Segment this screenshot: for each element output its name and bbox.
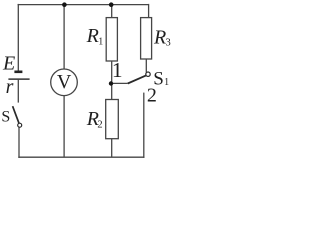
switch S1 pivot contact circle xyxy=(146,72,150,76)
wire: R1 top lead xyxy=(111,5,113,18)
resistor R2 box xyxy=(106,100,119,139)
wire: R3 top lead xyxy=(148,4,150,18)
svg-text:1: 1 xyxy=(98,37,103,48)
svg-text:V: V xyxy=(57,71,72,93)
svg-text:3: 3 xyxy=(166,38,171,49)
wire: R2 bottom lead xyxy=(111,139,113,158)
wire: battery to switch S xyxy=(17,80,19,103)
junction dot top (R1 branch) xyxy=(109,2,114,7)
svg-text:E: E xyxy=(2,53,15,75)
battery E negative plate (short thick) xyxy=(14,71,22,74)
svg-text:r: r xyxy=(6,76,14,98)
switch S blade xyxy=(13,106,19,123)
svg-text:2: 2 xyxy=(147,84,157,106)
svg-text:2: 2 xyxy=(97,120,102,131)
svg-text:S: S xyxy=(1,109,10,126)
battery E positive plate (long thin) xyxy=(8,78,29,80)
wire: bottom horizontal xyxy=(18,156,144,158)
switch S pivot contact circle xyxy=(18,123,22,127)
wire: R3 bottom lead xyxy=(145,59,147,72)
svg-text:1: 1 xyxy=(112,58,123,82)
wire: contact 2 vertical xyxy=(143,93,145,158)
wire: R1 bottom lead to node 1 xyxy=(111,61,113,83)
resistor R1 box xyxy=(106,18,117,61)
junction dot top (voltmeter branch) xyxy=(62,2,67,7)
wire: node 1 to R2 xyxy=(111,83,113,99)
wire: switch S to bottom-left corner xyxy=(18,127,20,158)
svg-text:R: R xyxy=(153,27,166,49)
node 1 junction dot xyxy=(109,81,113,85)
switch S1 blade xyxy=(128,76,146,84)
svg-text:1: 1 xyxy=(164,77,169,88)
wire: left vertical (top corner to battery) xyxy=(17,4,19,71)
wire: voltmeter bottom lead xyxy=(63,96,65,158)
resistor R3 box xyxy=(141,18,152,59)
wire: node 1 horizontal stub xyxy=(111,82,128,84)
wire: top horizontal xyxy=(18,4,149,6)
wire: voltmeter top lead xyxy=(63,5,65,69)
voltmeter U: circle xyxy=(51,69,78,96)
svg-text:R: R xyxy=(86,25,99,47)
